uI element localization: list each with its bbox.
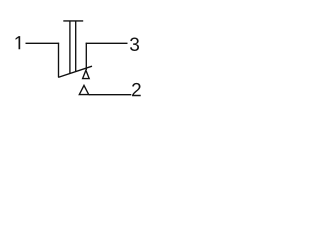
element top bar (63, 20, 83, 22)
element right plate (75, 21, 77, 72)
pin 2 label (132, 83, 141, 96)
pin 1 label (16, 36, 21, 49)
pin 2 wire (89, 94, 132, 96)
element left plate (69, 21, 71, 74)
pin 2 wiper arrowhead (open triangle) (79, 85, 88, 94)
adjustment diagonal arrow shaft (58, 66, 92, 77)
pin 3 label (130, 38, 139, 51)
pin 3 arrowhead (open triangle) (83, 70, 90, 78)
pin 3 wire vertical (85, 43, 87, 70)
pin 1 wire horizontal (26, 42, 60, 44)
pin 3 wire horizontal (86, 42, 128, 44)
pin 1 wire vertical (58, 43, 60, 78)
